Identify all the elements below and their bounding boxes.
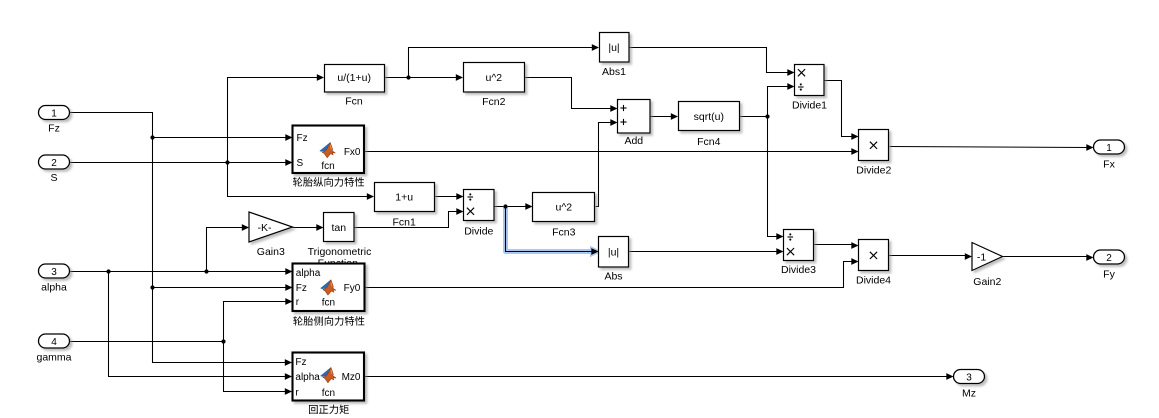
wire Divide1 output to Divide2 first input <box>825 81 853 137</box>
svg-text:alpha: alpha <box>295 372 320 383</box>
wire branch up to Abs1 input <box>409 48 593 78</box>
wire alpha branch up to Gain3 input <box>207 228 243 272</box>
label 轮胎纵向力特性 <box>293 177 364 187</box>
wire Fz branch to 轮胎侧向力特性 Fz input <box>153 287 287 289</box>
input port 2 <box>39 155 70 169</box>
svg-text:Abs1: Abs1 <box>602 66 626 78</box>
wire S branch up to Fcn input <box>228 78 318 163</box>
svg-text:Add: Add <box>624 135 643 147</box>
wire Divide4 output to Gain2 input <box>889 255 966 257</box>
wire Mz0 from 回正力矩 to port Mz <box>365 376 948 378</box>
svg-text:3: 3 <box>966 373 972 384</box>
block Fcn2 u^2 <box>464 63 525 93</box>
svg-text:u^2: u^2 <box>485 72 502 84</box>
label 回正力矩 <box>309 405 349 415</box>
svg-text:|u|: |u| <box>608 246 619 258</box>
block Divide1 <box>795 65 825 96</box>
svg-text:-1: -1 <box>977 251 986 263</box>
svg-text:2: 2 <box>1106 253 1112 264</box>
svg-text:fcn: fcn <box>322 297 335 308</box>
label 轮胎侧向力特性 <box>293 316 364 326</box>
junction S wire at x=227 <box>225 160 229 164</box>
svg-text:Fx: Fx <box>1103 159 1115 171</box>
block 轮胎纵向力特性 (MATLAB Function) <box>293 126 365 174</box>
wire Fy0 from 轮胎侧向力特性 to Divide4 second input <box>365 262 853 288</box>
wire S branch down to Fcn1 input <box>228 163 368 197</box>
junction Fcn output at x=408.5 <box>406 75 410 79</box>
block Divide3 <box>784 230 814 261</box>
svg-text:Divide3: Divide3 <box>781 264 816 276</box>
svg-text:u/(1+u): u/(1+u) <box>337 72 371 84</box>
svg-text:3: 3 <box>51 267 57 278</box>
wire Abs output to Divide3 second input <box>629 251 778 253</box>
wire Gain3 output to tan input <box>293 227 318 229</box>
svg-text:Divide2: Divide2 <box>856 165 891 177</box>
block Abs |u| <box>599 237 629 268</box>
junction sqrt output <box>765 114 769 118</box>
svg-text:-K-: -K- <box>258 222 273 234</box>
wire branch up to Divide1 second input <box>768 87 789 117</box>
junction gamma branch point <box>221 339 225 343</box>
svg-text:1: 1 <box>51 109 57 120</box>
svg-text:u^2: u^2 <box>555 202 572 214</box>
svg-text:1+u: 1+u <box>395 192 413 204</box>
svg-text:|u|: |u| <box>608 42 619 54</box>
block Fcn u/(1+u) <box>325 65 385 93</box>
wire S from port 2 to 轮胎纵向力特性 S input <box>70 162 287 164</box>
svg-text:Trigonometric: Trigonometric <box>308 246 372 258</box>
svg-text:alpha: alpha <box>296 268 321 279</box>
block Fcn1 1+u <box>375 183 435 212</box>
block 轮胎侧向力特性 (MATLAB Function) <box>293 264 365 312</box>
input port 3 <box>39 264 70 278</box>
output port Fx <box>1094 140 1125 154</box>
svg-text:Divide1: Divide1 <box>792 100 827 112</box>
block Divide2 <box>859 130 889 161</box>
svg-text:Fz: Fz <box>295 357 306 368</box>
svg-text:Fcn1: Fcn1 <box>393 217 417 229</box>
svg-text:S: S <box>297 158 304 169</box>
svg-text:Divide4: Divide4 <box>856 275 891 287</box>
svg-text:2: 2 <box>51 158 57 169</box>
wire Add output to Fcn4 input <box>651 116 672 118</box>
wire gamma branch up to 轮胎侧向力特性 r input <box>224 302 287 342</box>
svg-text:Fcn3: Fcn3 <box>552 226 576 238</box>
wire Divide2 output to port Fx <box>890 147 1088 148</box>
svg-text:Fy0: Fy0 <box>344 283 361 294</box>
wire Fz branch to 轮胎纵向力特性 Fz input <box>153 137 287 139</box>
junction Divide output <box>503 204 507 208</box>
svg-text:Fz: Fz <box>296 283 307 294</box>
svg-text:sqrt(u): sqrt(u) <box>694 111 724 123</box>
svg-text:fcn: fcn <box>321 161 334 172</box>
svg-text:Mz0: Mz0 <box>342 372 361 383</box>
wire Fcn4 output to junction <box>740 116 768 118</box>
wire gamma from port 4 to branch point <box>70 341 224 343</box>
wire Fcn3 output up to Add second input <box>596 123 612 207</box>
block Divide <box>464 190 495 221</box>
wire Divide3 output to Divide4 first input <box>814 244 853 246</box>
input port 4 <box>39 334 70 348</box>
input port 1 <box>39 106 70 120</box>
svg-text:Gain2: Gain2 <box>973 276 1001 288</box>
wire Divide output to Fcn3 input <box>495 206 527 208</box>
wire highlighted signal Divide output to Abs input (blue) <box>506 207 591 252</box>
svg-text:1: 1 <box>1106 143 1112 154</box>
wire branch down to Divide3 first input <box>768 117 778 237</box>
svg-text:Fcn: Fcn <box>345 96 363 108</box>
wire Fz from port 1 to 回正力矩 Fz input (vertical trunk x=152) <box>70 113 286 363</box>
wire Fcn output to Fcn2 input <box>385 77 457 79</box>
block Gain2 -1 <box>972 243 1003 271</box>
wire alpha branch down to 回正力矩 alpha input <box>109 272 286 377</box>
block Divide4 <box>859 240 889 271</box>
junction Fz trunk to 轮胎侧向力特性 <box>150 285 154 289</box>
junction Fz trunk to 轮胎纵向力特性 <box>150 135 154 139</box>
svg-text:S: S <box>50 172 57 184</box>
block Fcn3 u^2 <box>533 193 595 222</box>
wire Abs1 output to Divide1 first input <box>630 48 789 73</box>
svg-text:Mz: Mz <box>962 388 976 400</box>
svg-text:Abs: Abs <box>604 271 622 283</box>
svg-text:fcn: fcn <box>322 388 335 399</box>
svg-text:Gain3: Gain3 <box>257 246 285 258</box>
block Abs1 |u| <box>600 33 630 63</box>
block Add <box>618 100 651 134</box>
svg-text:alpha: alpha <box>41 282 67 294</box>
junction alpha wire at x=108.5 <box>106 269 110 273</box>
output port Fy <box>1094 250 1125 264</box>
svg-text:Fz: Fz <box>48 123 60 135</box>
svg-text:Fx0: Fx0 <box>344 147 361 158</box>
output port Mz <box>954 370 985 384</box>
block Fcn4 sqrt(u) <box>679 102 740 131</box>
wire tan output to Divide second input <box>355 212 458 228</box>
svg-text:tan: tan <box>331 222 346 234</box>
svg-text:Fy: Fy <box>1103 269 1115 281</box>
block 回正力矩 (MATLAB Function) <box>293 353 365 401</box>
svg-text:Divide: Divide <box>464 225 493 237</box>
wire gamma branch down to 回正力矩 r input <box>224 342 286 392</box>
svg-text:gamma: gamma <box>36 352 71 364</box>
wire Gain2 output to port Fy <box>1003 256 1088 258</box>
svg-text:Fcn2: Fcn2 <box>482 96 506 108</box>
block Gain3 -K- <box>249 212 293 242</box>
block Trigonometric Function tan <box>324 213 355 242</box>
svg-text:Fcn4: Fcn4 <box>697 136 721 148</box>
svg-text:4: 4 <box>51 337 57 348</box>
junction alpha wire at x=206 <box>204 269 208 273</box>
wire Fx0 from 轮胎纵向力特性 to Divide2 second input <box>365 151 853 153</box>
wire alpha from port 3 to 轮胎侧向力特性 alpha input <box>70 271 287 273</box>
wire Fcn1 output to Divide first input <box>435 196 458 198</box>
wire Fcn2 output to Add first input <box>525 78 612 109</box>
svg-text:Fz: Fz <box>297 133 308 144</box>
